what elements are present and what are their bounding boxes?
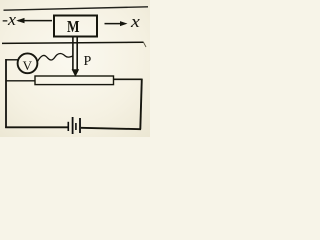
svg-text:V: V	[23, 58, 33, 73]
svg-text:M: M	[67, 17, 80, 36]
svg-text:P: P	[84, 54, 92, 69]
svg-text:-x: -x	[2, 10, 16, 29]
svg-text:x: x	[130, 12, 140, 31]
